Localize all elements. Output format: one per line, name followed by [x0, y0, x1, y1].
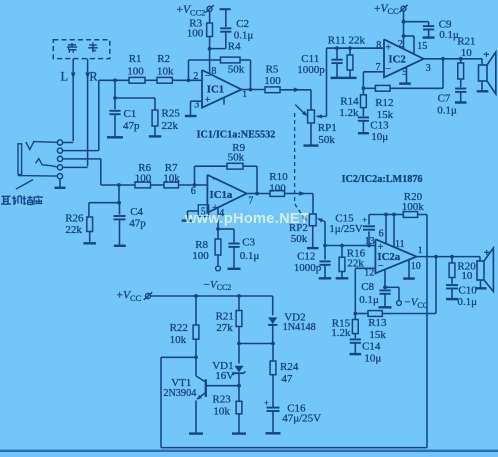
svg-text:R13: R13 [368, 317, 387, 329]
svg-text:+: + [378, 242, 384, 253]
svg-text:100: 100 [269, 183, 286, 195]
svg-text:IC1a: IC1a [210, 189, 233, 201]
svg-text:100: 100 [192, 250, 209, 262]
svg-text:16V: 16V [215, 370, 234, 382]
svg-text:0.1μ: 0.1μ [234, 30, 254, 42]
svg-text:1: 1 [242, 90, 247, 100]
svg-text:+: + [484, 247, 490, 259]
svg-text:0.1μ: 0.1μ [439, 29, 459, 41]
svg-text:R4: R4 [228, 41, 241, 53]
svg-text:C11: C11 [301, 53, 319, 65]
svg-text:−: − [378, 261, 384, 272]
svg-text:100: 100 [135, 172, 152, 184]
svg-text:10k: 10k [213, 406, 230, 418]
svg-text:R24: R24 [280, 361, 299, 373]
svg-text:10μ: 10μ [371, 131, 388, 143]
svg-text:22k: 22k [162, 120, 179, 132]
svg-text:R12: R12 [375, 97, 393, 109]
svg-text:10: 10 [461, 47, 473, 59]
svg-text:1μ/25V: 1μ/25V [329, 223, 362, 235]
svg-text:100: 100 [187, 28, 204, 40]
svg-text:C14: C14 [362, 341, 381, 353]
svg-text:+: + [264, 398, 269, 408]
svg-text:6: 6 [191, 186, 196, 197]
svg-text:47μ/25V: 47μ/25V [282, 413, 321, 425]
svg-text:C3: C3 [242, 237, 255, 249]
svg-text:R5: R5 [266, 64, 279, 76]
svg-text:IC1/IC1a:NE5532: IC1/IC1a:NE5532 [197, 129, 276, 140]
svg-text:10μ: 10μ [364, 353, 381, 365]
svg-text:+: + [385, 42, 391, 53]
svg-text:15k: 15k [369, 329, 386, 341]
svg-text:IC2/IC2a:LM1876: IC2/IC2a:LM1876 [342, 174, 423, 185]
svg-text:C2: C2 [236, 18, 249, 30]
svg-text:15: 15 [417, 41, 427, 52]
svg-text:R23: R23 [212, 394, 231, 406]
svg-text:+: + [205, 95, 211, 106]
svg-text:50k: 50k [228, 64, 245, 76]
svg-text:10k: 10k [170, 334, 187, 346]
svg-text:www.pHome.NET: www.pHome.NET [184, 211, 309, 227]
svg-text:0.1μ: 0.1μ [240, 250, 260, 262]
svg-text:1.2k: 1.2k [339, 107, 359, 119]
svg-text:1000p: 1000p [297, 64, 325, 76]
svg-text:100: 100 [264, 75, 281, 87]
svg-text:1.2k: 1.2k [331, 327, 351, 339]
svg-text:R2: R2 [157, 53, 170, 65]
svg-text:100: 100 [127, 66, 144, 78]
svg-text:0.1μ: 0.1μ [359, 294, 379, 306]
svg-text:−: − [385, 64, 391, 75]
svg-text:L: L [61, 70, 69, 84]
svg-text:11: 11 [395, 239, 405, 250]
svg-text:+: + [362, 216, 367, 226]
svg-text:2N3904: 2N3904 [163, 388, 196, 399]
svg-text:RP1: RP1 [318, 122, 337, 134]
svg-text:100k: 100k [402, 201, 425, 213]
svg-text:+: + [483, 49, 489, 61]
svg-text:10: 10 [411, 261, 421, 272]
svg-text:2: 2 [398, 39, 403, 50]
svg-text:R26: R26 [65, 212, 84, 224]
svg-text:0.1μ: 0.1μ [437, 105, 457, 117]
svg-text:10k: 10k [157, 66, 174, 78]
svg-text:2: 2 [193, 71, 198, 82]
svg-text:−: − [205, 71, 211, 82]
svg-text:3: 3 [426, 63, 431, 74]
svg-text:R: R [89, 70, 98, 84]
svg-text:50k: 50k [228, 152, 245, 164]
svg-text:R21: R21 [457, 35, 475, 47]
svg-text:1N4148: 1N4148 [283, 322, 316, 333]
svg-text:50k: 50k [318, 134, 335, 146]
svg-text:1: 1 [418, 246, 423, 256]
svg-text:R11 22k: R11 22k [328, 35, 366, 47]
svg-text:C10: C10 [458, 285, 477, 297]
svg-text:47p: 47p [123, 120, 140, 132]
svg-text:27k: 27k [216, 322, 233, 334]
svg-text:10: 10 [461, 270, 473, 282]
svg-text:8: 8 [376, 40, 381, 51]
svg-text:R22: R22 [170, 322, 188, 334]
svg-text:C13: C13 [370, 120, 389, 132]
svg-text:R25: R25 [162, 107, 181, 119]
svg-text:C7: C7 [438, 93, 451, 105]
svg-text:13: 13 [365, 236, 375, 247]
svg-text:8: 8 [211, 66, 216, 77]
svg-text:47: 47 [281, 373, 293, 385]
svg-text:6: 6 [379, 228, 384, 239]
svg-text:10k: 10k [163, 172, 180, 184]
svg-text:R10: R10 [269, 171, 288, 183]
svg-text:C1: C1 [124, 108, 137, 120]
svg-text:47p: 47p [129, 217, 146, 229]
svg-text:IC1: IC1 [207, 83, 224, 95]
svg-text:C4: C4 [130, 206, 143, 218]
svg-text:R21: R21 [216, 311, 234, 323]
svg-text:22k: 22k [65, 224, 82, 236]
svg-text:−: − [212, 174, 218, 185]
svg-text:R1: R1 [129, 53, 142, 65]
svg-text:1000p: 1000p [294, 262, 322, 274]
svg-text:7: 7 [248, 196, 253, 207]
svg-text:C8: C8 [361, 281, 374, 293]
svg-text:R14: R14 [340, 96, 359, 108]
svg-text:0.1μ: 0.1μ [457, 296, 477, 308]
svg-text:C12: C12 [297, 251, 315, 263]
svg-text:50k: 50k [291, 233, 308, 245]
